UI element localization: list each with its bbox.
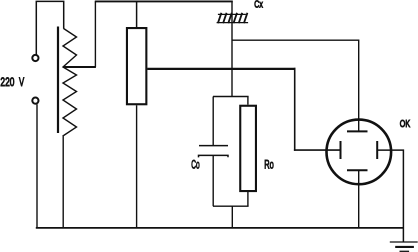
capacitor Cx earth-plate: top line <box>218 13 246 15</box>
tube OK: bottom electrode bar <box>347 169 368 171</box>
wire: bottom terminal to bottom rail <box>36 104 38 228</box>
svg-text:V: V <box>19 77 24 90</box>
svg-text:OK: OK <box>400 118 410 130</box>
wire: R1 bottom lead to bottom rail <box>136 105 138 228</box>
wire: top rail to Cx node <box>95 0 233 2</box>
wire: Co/Ro bottom connector <box>213 205 249 207</box>
wire: Co/Ro center bottom lead to bottom rail <box>231 206 233 228</box>
capacitor Cx earth-plate: hatching <box>218 13 248 23</box>
ground: bar 1 <box>390 241 418 243</box>
svg-text:Ro: Ro <box>264 159 274 172</box>
wire: autotransformer bottom lead to bottom rail <box>62 135 64 228</box>
wire: R1 right side to tube (thick horizontal) <box>147 68 295 70</box>
wire: tube left lead <box>294 149 341 151</box>
autotransformer T1 core bar <box>57 27 59 134</box>
node: Cx vertical wire <box>231 1 233 96</box>
wire: Co/Ro top connector <box>213 96 249 98</box>
svg-text:220: 220 <box>0 77 14 90</box>
wire: tube right lead to ground <box>377 150 403 242</box>
ground: bar 3 <box>400 250 410 252</box>
wire: Cx node to tube top lead <box>232 40 359 131</box>
wire: top-left loop (terminal to autotransformer top) <box>36 1 63 54</box>
capacitor Co: top plate <box>199 145 228 147</box>
tube OK: envelope <box>327 120 392 185</box>
wire: bottom rail <box>36 227 404 229</box>
wire: tube bottom lead to bottom rail <box>358 170 360 228</box>
capacitor Cx earth-plate: bottom line <box>217 22 249 24</box>
terminal: 220V top <box>32 55 38 61</box>
svg-text:Cx: Cx <box>254 0 263 10</box>
wire: tap riser <box>94 1 96 67</box>
resistor Ro (middle rectangle) <box>240 106 256 191</box>
wire: Co bottom lead <box>212 155 214 206</box>
svg-text:Co: Co <box>191 159 199 173</box>
capacitor Co: bottom plate <box>199 155 229 157</box>
wire: wiper tap (thick) <box>63 66 96 68</box>
wire: R1 top lead <box>136 1 138 27</box>
tube OK: top electrode bar <box>347 130 368 132</box>
wire: Ro top lead <box>247 97 249 105</box>
ground: bar 2 <box>395 246 414 248</box>
tube OK: left electrode bar <box>340 141 342 159</box>
terminal: 220V bottom <box>32 98 38 104</box>
wire: Ro bottom lead <box>247 192 249 206</box>
tube OK: right electrode bar <box>376 141 378 159</box>
wire: Co top lead <box>212 97 214 146</box>
resistor R1 (left rectangle) <box>127 28 146 104</box>
wire: drop to tube left lead <box>294 68 296 151</box>
autotransformer T1 winding (zigzag) <box>63 29 77 136</box>
